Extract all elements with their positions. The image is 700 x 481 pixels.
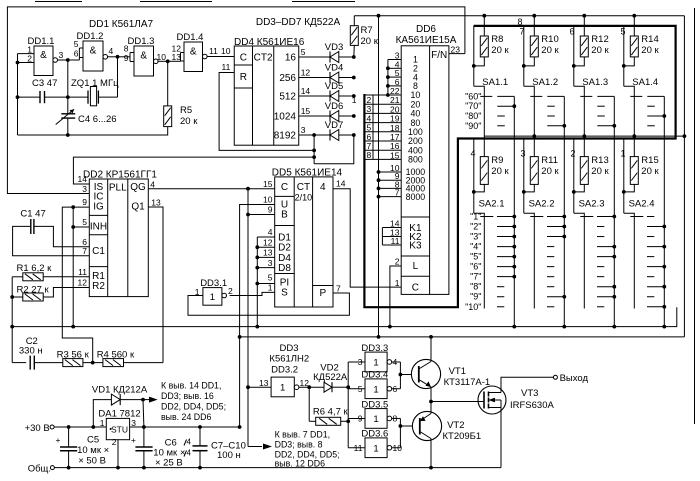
wire VT1 collector — [430, 337, 432, 362]
svg-text:6: 6 — [74, 49, 79, 59]
wire R15 bottom — [624, 184, 635, 192]
svg-text:R8: R8 — [491, 34, 503, 45]
wire VT2 collector to ground — [430, 439, 432, 468]
svg-text:20 к: 20 к — [591, 166, 609, 177]
svg-text:12: 12 — [78, 278, 88, 288]
svg-text:4: 4 — [470, 149, 475, 159]
svg-text:3: 3 — [59, 50, 64, 60]
resistor R13 — [582, 134, 586, 138]
svg-text:R: R — [240, 72, 247, 83]
svg-text:VT2: VT2 — [447, 420, 464, 431]
svg-text:"2": "2" — [470, 222, 481, 232]
svg-text:VD3: VD3 — [325, 42, 343, 53]
svg-text:"4": "4" — [470, 242, 481, 252]
svg-text:SA1.2: SA1.2 — [532, 77, 558, 88]
wire DD6 K inputs — [381, 228, 383, 246]
svg-text:9: 9 — [82, 197, 87, 207]
svg-text:VD6: VD6 — [325, 101, 343, 112]
wire DD6 inputs 1-2-4-8 tie — [387, 60, 389, 96]
svg-text:IG: IG — [93, 201, 104, 212]
svg-text:R5: R5 — [180, 105, 192, 116]
svg-text:20 к: 20 к — [541, 166, 559, 177]
svg-text:× 25 В: × 25 В — [155, 458, 183, 469]
svg-text:R12: R12 — [591, 34, 608, 45]
svg-text:8: 8 — [124, 44, 129, 54]
svg-text:DD3: DD3 — [279, 343, 298, 354]
wire R8 bottom — [474, 57, 485, 66]
label ground note — [248, 446, 262, 448]
svg-text:VD7: VD7 — [325, 120, 343, 131]
svg-text:3: 3 — [301, 125, 306, 135]
wire reset to DD2 IS — [312, 155, 316, 159]
svg-text:20 к: 20 к — [641, 45, 659, 56]
capacitor C4 variable — [67, 97, 69, 114]
svg-text:12: 12 — [263, 237, 273, 247]
svg-text:1: 1 — [280, 383, 285, 394]
wire DA1 output rail — [130, 426, 240, 428]
svg-text:F/N: F/N — [431, 50, 447, 61]
svg-text:VT3: VT3 — [521, 388, 538, 399]
svg-text:R10: R10 — [541, 34, 558, 45]
svg-text:20 к: 20 к — [491, 45, 509, 56]
wire F/N feedback top — [7, 7, 465, 194]
svg-text:VD1 КД212А: VD1 КД212А — [92, 385, 148, 396]
svg-text:&: & — [40, 50, 47, 61]
svg-text:SA1.4: SA1.4 — [632, 77, 658, 88]
wire VT3 source — [500, 400, 502, 468]
svg-text:1: 1 — [373, 384, 378, 395]
wire R10 bottom — [524, 57, 535, 66]
wire DD5 PI — [257, 283, 274, 285]
svg-text:4: 4 — [150, 180, 155, 190]
svg-text:STU: STU — [111, 425, 128, 435]
svg-text:+: + — [56, 435, 61, 445]
wire R11 bottom — [524, 184, 535, 192]
wire output vertical col4 — [663, 96, 665, 326]
svg-text:D8: D8 — [278, 263, 291, 274]
svg-text:R14: R14 — [641, 34, 658, 45]
svg-text:Выход: Выход — [560, 373, 589, 384]
module border thick — [364, 26, 675, 307]
svg-text:5: 5 — [620, 27, 625, 37]
wire DD1.4 inputs — [180, 53, 182, 62]
svg-text:23: 23 — [451, 45, 461, 55]
svg-text:8: 8 — [367, 150, 372, 160]
svg-text:QG: QG — [130, 182, 146, 193]
svg-text:SA2.2: SA2.2 — [529, 199, 555, 210]
svg-text:8: 8 — [517, 17, 522, 27]
wire DD2 IG to R3 R4 junction — [62, 207, 92, 363]
svg-text:"60": "60" — [465, 91, 481, 101]
wire DD3.5 input — [348, 417, 365, 419]
svg-text:INH: INH — [90, 222, 107, 233]
wire top edge artifacts — [35, 1, 82, 3]
svg-text:1: 1 — [352, 95, 357, 105]
svg-text:10: 10 — [263, 195, 273, 205]
svg-text:10 мк ×: 10 мк × — [77, 445, 109, 456]
svg-text:4: 4 — [109, 46, 114, 56]
svg-text:+: + — [131, 435, 136, 445]
wire DD2 INH — [73, 226, 89, 228]
wire DD3 outputs to VT bases — [392, 361, 401, 363]
wire DD3 input bus — [347, 362, 349, 448]
svg-text:&: & — [90, 46, 97, 57]
svg-text:P: P — [319, 288, 326, 299]
svg-text:"3": "3" — [470, 232, 481, 242]
svg-text:DD3–DD7 КД522А: DD3–DD7 КД522А — [256, 17, 341, 28]
wire DD5 U to DA1 rail — [240, 205, 275, 428]
svg-text:12: 12 — [301, 68, 311, 78]
svg-text:20 к: 20 к — [180, 116, 198, 127]
svg-text:11: 11 — [209, 46, 218, 56]
svg-text:2: 2 — [570, 149, 575, 159]
resistor R5 — [167, 61, 169, 106]
resistor R12 — [582, 14, 586, 18]
wire DD1.2 inputs — [78, 48, 80, 60]
svg-text:14: 14 — [301, 86, 311, 96]
svg-text:SA1.3: SA1.3 — [582, 77, 608, 88]
svg-text:L: L — [413, 261, 419, 272]
svg-text:16: 16 — [285, 53, 297, 64]
wire DD1.1 inputs — [18, 53, 35, 55]
wire R14 bottom — [624, 57, 635, 66]
wire output vertical col2 — [563, 96, 565, 326]
svg-text:"6": "6" — [470, 262, 481, 272]
svg-text:20 к: 20 к — [591, 45, 609, 56]
svg-text:330 н: 330 н — [19, 346, 43, 357]
svg-text:4: 4 — [187, 449, 192, 458]
svg-text:R6 4,7 к: R6 4,7 к — [313, 407, 349, 418]
svg-text:выв. 24 DD6: выв. 24 DD6 — [161, 412, 211, 422]
wire R9 bottom — [474, 184, 485, 192]
svg-text:20 к: 20 к — [541, 45, 559, 56]
svg-text:20 к: 20 к — [641, 166, 659, 177]
resistor R10 — [532, 14, 536, 18]
wire DD2 QG to DD5 C — [148, 188, 274, 190]
terminal output — [553, 375, 557, 379]
wire R12 bottom — [574, 57, 585, 66]
wire DD3.4 input — [348, 388, 365, 390]
wire DD5 S from DD3.1 — [230, 292, 275, 295]
svg-text:3: 3 — [82, 184, 87, 194]
svg-text:11: 11 — [391, 236, 400, 246]
resistor R8 — [482, 14, 486, 18]
svg-text:10: 10 — [221, 46, 231, 56]
svg-text:DD3; выв. 8: DD3; выв. 8 — [275, 440, 323, 450]
svg-text:800: 800 — [408, 155, 423, 165]
svg-text:1: 1 — [210, 292, 215, 303]
svg-text:Q1: Q1 — [131, 202, 145, 213]
svg-text:R7: R7 — [361, 25, 373, 36]
svg-text:КТ3117А-1: КТ3117А-1 — [444, 377, 491, 388]
diode VD6 — [299, 115, 330, 117]
diode VD5 — [299, 95, 330, 97]
svg-text:4: 4 — [268, 227, 273, 237]
svg-text:15: 15 — [263, 179, 273, 189]
wire DD6 F/N output — [449, 53, 465, 55]
wire DD5 B ground — [248, 214, 275, 216]
svg-text:1: 1 — [373, 357, 378, 368]
svg-text:1: 1 — [100, 418, 105, 428]
svg-text:R15: R15 — [641, 155, 658, 166]
svg-text:5: 5 — [82, 217, 87, 227]
svg-text:Общ.: Общ. — [28, 464, 51, 475]
wire DD1.3 inputs — [129, 53, 131, 62]
svg-text:3: 3 — [520, 149, 525, 159]
svg-text:5: 5 — [74, 39, 79, 49]
svg-text:C4 6...26: C4 6...26 — [78, 114, 117, 125]
wire DD1.2 output — [108, 56, 118, 58]
svg-text:КТ209Б1: КТ209Б1 — [443, 431, 482, 442]
svg-text:SA2.1: SA2.1 — [479, 199, 505, 210]
svg-text:9: 9 — [124, 53, 129, 63]
gate DD1.3 — [134, 46, 154, 76]
svg-text:"90": "90" — [465, 121, 481, 131]
svg-text:SA1.1: SA1.1 — [482, 77, 508, 88]
svg-text:100 н: 100 н — [217, 450, 241, 461]
wire bus A common — [12, 307, 677, 326]
svg-text:512: 512 — [279, 92, 296, 103]
wire output vertical col3 — [613, 96, 615, 326]
svg-text:DD1.4: DD1.4 — [177, 32, 204, 43]
svg-text:DD6: DD6 — [416, 24, 436, 35]
wire DD3.6 input — [348, 447, 365, 449]
svg-text:5: 5 — [268, 273, 273, 283]
resistor R11 — [532, 134, 536, 138]
page border right — [694, 8, 696, 424]
wire DD5 out4 to DD6 C — [333, 189, 401, 287]
svg-text:13: 13 — [263, 248, 273, 258]
svg-text:1: 1 — [620, 149, 625, 159]
svg-text:4: 4 — [187, 438, 192, 447]
svg-text:20 к: 20 к — [361, 36, 379, 47]
svg-text:"10": "10" — [465, 302, 481, 312]
diode VD4 — [299, 77, 330, 79]
wire R5 bottom loop — [18, 127, 168, 135]
svg-text:&: & — [190, 47, 197, 58]
svg-text:× 50 В: × 50 В — [78, 456, 106, 467]
wire DD1.1 output — [58, 59, 68, 61]
svg-text:DD1.3: DD1.3 — [128, 36, 155, 47]
wire DD6 pins 22-15 ladder — [364, 94, 401, 96]
svg-text:7: 7 — [336, 284, 341, 294]
svg-text:IRFS630A: IRFS630A — [510, 400, 554, 411]
svg-text:DD3.2: DD3.2 — [271, 365, 298, 376]
svg-text:13: 13 — [172, 52, 182, 62]
transistor VT1 KT3117A-1 — [411, 359, 440, 388]
svg-text:R11: R11 — [541, 155, 558, 166]
arrow +12V to pins — [143, 399, 152, 401]
svg-text:14: 14 — [336, 179, 346, 189]
wire DD3.2 out — [299, 386, 324, 388]
diode VD7 — [299, 134, 330, 136]
resistor R9 — [483, 136, 485, 157]
wire to DD3.2 input — [248, 386, 271, 388]
wire DD1.4 output to DD4 C — [207, 56, 234, 58]
svg-text:B: B — [281, 210, 288, 221]
svg-text:5: 5 — [301, 47, 306, 57]
svg-text:11: 11 — [78, 267, 87, 277]
svg-text:"8": "8" — [470, 282, 481, 292]
svg-text:15: 15 — [390, 150, 400, 160]
svg-text:ZQ1 1 МГц: ZQ1 1 МГц — [71, 78, 119, 89]
svg-text:"9": "9" — [470, 292, 481, 302]
svg-text:PLL: PLL — [109, 183, 127, 194]
svg-text:SA2.3: SA2.3 — [579, 199, 605, 210]
wire VT1 emitter node — [430, 387, 432, 414]
svg-text:S: S — [281, 288, 288, 299]
gate DD1.2 — [83, 41, 103, 71]
svg-text:7: 7 — [82, 246, 87, 256]
svg-text:11: 11 — [222, 62, 231, 72]
svg-text:DD2, DD4, DD5;: DD2, DD4, DD5; — [161, 402, 226, 412]
svg-text:K3: K3 — [409, 241, 422, 252]
wire +12V top rail — [354, 15, 684, 17]
svg-text:8000: 8000 — [406, 192, 426, 202]
wire R13 bottom — [574, 184, 585, 192]
svg-text:CT2: CT2 — [254, 53, 273, 64]
svg-text:КА561ИЕ15А: КА561ИЕ15А — [396, 35, 457, 46]
wire DD5 P out to DD3.1 — [188, 293, 349, 315]
svg-text:R9: R9 — [491, 155, 503, 166]
resistor R14 — [632, 14, 636, 18]
wire +30V rail — [54, 426, 106, 428]
wire DD4 R input — [219, 73, 314, 151]
svg-text:+30 В: +30 В — [25, 423, 50, 434]
svg-text:1: 1 — [373, 414, 378, 425]
wire DD5 D bus — [256, 237, 258, 327]
svg-text:КД522А: КД522А — [313, 372, 348, 383]
svg-text:"80": "80" — [465, 111, 481, 121]
svg-text:CT: CT — [297, 182, 310, 193]
svg-text:10: 10 — [157, 52, 167, 62]
svg-text:"7": "7" — [470, 272, 481, 282]
svg-text:2: 2 — [228, 286, 233, 296]
svg-text:"70": "70" — [465, 101, 481, 111]
svg-text:К выв. 7 DD1,: К выв. 7 DD1, — [275, 430, 331, 440]
svg-text:R2: R2 — [92, 281, 105, 292]
wire DD6 pins 10-9-8-7 tie to +12 — [379, 171, 402, 173]
svg-text:1: 1 — [395, 278, 400, 288]
gate DD1.4 — [184, 42, 203, 72]
svg-text:SA2.4: SA2.4 — [629, 199, 655, 210]
wire mid vertical +12 — [378, 16, 380, 337]
svg-text:DD1 К561ЛА7: DD1 К561ЛА7 — [89, 19, 154, 30]
gate DD1.1 — [34, 46, 53, 76]
resistor R7 — [353, 16, 355, 26]
svg-text:13: 13 — [151, 198, 161, 208]
wire left bus R1R2C2 — [11, 277, 13, 363]
svg-text:выв. 12 DD6: выв. 12 DD6 — [275, 459, 325, 469]
svg-text:"5": "5" — [470, 252, 481, 262]
wire DA1 ground pin — [117, 440, 119, 468]
svg-text:C5: C5 — [87, 435, 99, 446]
wire R9 feed bus — [484, 135, 684, 137]
svg-text:3: 3 — [268, 258, 273, 268]
wire ground rail — [54, 467, 501, 469]
svg-text:C3 47: C3 47 — [32, 78, 57, 89]
svg-text:VD5: VD5 — [325, 81, 343, 92]
svg-text:14: 14 — [78, 174, 88, 184]
svg-text:4: 4 — [320, 182, 326, 193]
svg-text:&: & — [140, 51, 147, 62]
svg-text:C: C — [281, 182, 288, 193]
ladder inner line — [372, 95, 374, 159]
wire output vertical col1 — [513, 96, 515, 326]
wire DD3.3 input — [348, 361, 365, 363]
svg-text:2: 2 — [395, 257, 400, 267]
svg-text:8192: 8192 — [274, 131, 297, 142]
svg-text:256: 256 — [279, 73, 296, 84]
wire +12V right drop — [683, 16, 685, 337]
svg-text:2: 2 — [112, 437, 117, 447]
svg-text:VD4: VD4 — [325, 63, 343, 74]
svg-text:C: C — [240, 53, 247, 64]
svg-text:DD1.2: DD1.2 — [77, 31, 104, 42]
svg-text:C1 47: C1 47 — [20, 209, 45, 220]
svg-text:К561ЛН2: К561ЛН2 — [269, 354, 309, 365]
transistor VT3 IRFS630A — [478, 386, 506, 414]
svg-text:1: 1 — [373, 443, 378, 454]
svg-text:К выв. 14 DD1,: К выв. 14 DD1, — [161, 381, 221, 391]
svg-text:C1: C1 — [92, 246, 105, 257]
wire rail B +12V distribution — [240, 336, 685, 338]
svg-text:20 к: 20 к — [491, 166, 509, 177]
svg-text:7: 7 — [395, 188, 400, 198]
svg-text:13: 13 — [259, 378, 269, 388]
resistor R15 — [632, 134, 636, 138]
svg-text:1024: 1024 — [274, 112, 297, 123]
svg-text:R13: R13 — [591, 155, 608, 166]
svg-text:VT1: VT1 — [449, 366, 466, 377]
svg-text:C: C — [412, 283, 419, 294]
svg-text:DD3; выв. 16: DD3; выв. 16 — [161, 391, 214, 401]
wire DD2 Q1 to R4 — [148, 207, 163, 363]
svg-text:2/10: 2/10 — [295, 193, 313, 203]
svg-text:1: 1 — [195, 287, 200, 297]
svg-text:15: 15 — [301, 106, 311, 116]
wire DD1.3 output — [158, 60, 168, 62]
transistor VT2 KT209B1 — [412, 411, 441, 440]
svg-text:9: 9 — [268, 205, 273, 215]
wire VT3 drain to output — [501, 377, 553, 392]
diode VD3 — [299, 56, 330, 58]
